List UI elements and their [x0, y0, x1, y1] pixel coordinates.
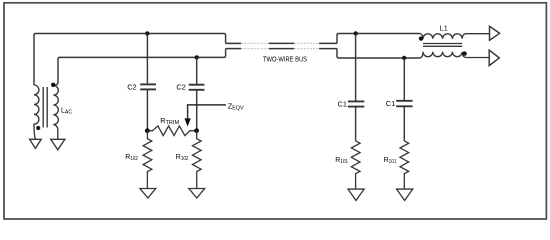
wire: bottom rail left: [58, 49, 226, 83]
capacitor C2 (right): [189, 85, 205, 90]
svg-text:L1: L1: [440, 24, 448, 33]
wire: C2 (right) upper lead: [196, 57, 198, 84]
wire: top rail left: [34, 34, 226, 86]
ground (R102 left): [140, 189, 156, 199]
transformer LAC right winding: [53, 83, 58, 139]
svg-text:C2: C2: [127, 82, 136, 91]
wire: C2 lower lead: [146, 89, 148, 130]
svg-text:C1: C1: [386, 99, 395, 108]
junction: bottom rail / C1: [402, 56, 406, 60]
buffer arrow (top output): [490, 26, 500, 40]
inductor L1 core: [423, 44, 462, 47]
node ZEQV callout wire: [188, 105, 226, 119]
wire: C2 upper lead: [146, 34, 148, 85]
junction: top rail / C1: [354, 31, 358, 35]
resistor R102 (right): [192, 131, 201, 189]
svg-text:TWO-WIRE BUS: TWO-WIRE BUS: [263, 54, 307, 63]
resistor RTRIM: [147, 126, 196, 136]
ground (R102 right): [189, 189, 205, 199]
capacitor C1 (right): [396, 101, 412, 107]
ground (R101 right): [397, 189, 413, 200]
svg-text:C2: C2: [176, 83, 185, 92]
svg-text:ZEQV: ZEQV: [228, 101, 244, 111]
svg-text:RTRIM: RTRIM: [160, 116, 179, 126]
ground (right transformer leg): [51, 139, 65, 150]
svg-text:C1: C1: [338, 99, 347, 108]
transformer LAC core: [43, 87, 47, 128]
resistor R101 (left): [351, 141, 360, 189]
wire: C1 (right) upper lead: [403, 58, 405, 101]
buffer arrow (bottom output): [489, 50, 499, 66]
svg-text:R101: R101: [335, 157, 348, 165]
transformer phase dot (top of right winding): [51, 83, 55, 87]
wire: two-wire bus bottom line: [226, 48, 337, 50]
junction: RTRIM left node: [145, 128, 150, 133]
svg-text:R101: R101: [384, 157, 397, 165]
wire: C1 upper lead: [355, 34, 357, 102]
inductor L1 phase dot (bottom right): [462, 51, 466, 55]
wire: C1 (right) lower lead: [403, 106, 405, 141]
transformer LAC left winding: [34, 85, 39, 139]
svg-text:LAC: LAC: [61, 108, 72, 116]
inductor L1 top winding: [420, 34, 490, 39]
ground (left transformer leg): [30, 139, 42, 148]
wire: bottom rail right: [337, 49, 420, 58]
capacitor C2 (left): [140, 84, 156, 89]
svg-text:R102: R102: [176, 154, 189, 162]
wire: C1 lower lead: [355, 107, 357, 141]
wire: C2 (right) lower lead: [196, 90, 198, 131]
ground (R101 left): [348, 189, 364, 200]
junction: RTRIM right node: [194, 128, 199, 133]
resistor R101 (right): [400, 141, 409, 189]
inductor L1 bottom winding: [420, 52, 490, 58]
wire: two-wire bus top line: [226, 42, 337, 44]
junction: top rail / C2: [145, 31, 149, 35]
transformer phase dot (bottom of left winding): [36, 126, 40, 130]
node ZEQV arrowhead: [184, 118, 190, 126]
inductor L1 phase dot (top left): [419, 36, 423, 40]
resistor R102 (left): [143, 131, 152, 189]
junction: bottom rail / C2: [195, 55, 199, 59]
svg-text:R102: R102: [125, 154, 138, 162]
wire: top rail right: [337, 34, 420, 44]
capacitor C1 (left): [348, 101, 364, 106]
